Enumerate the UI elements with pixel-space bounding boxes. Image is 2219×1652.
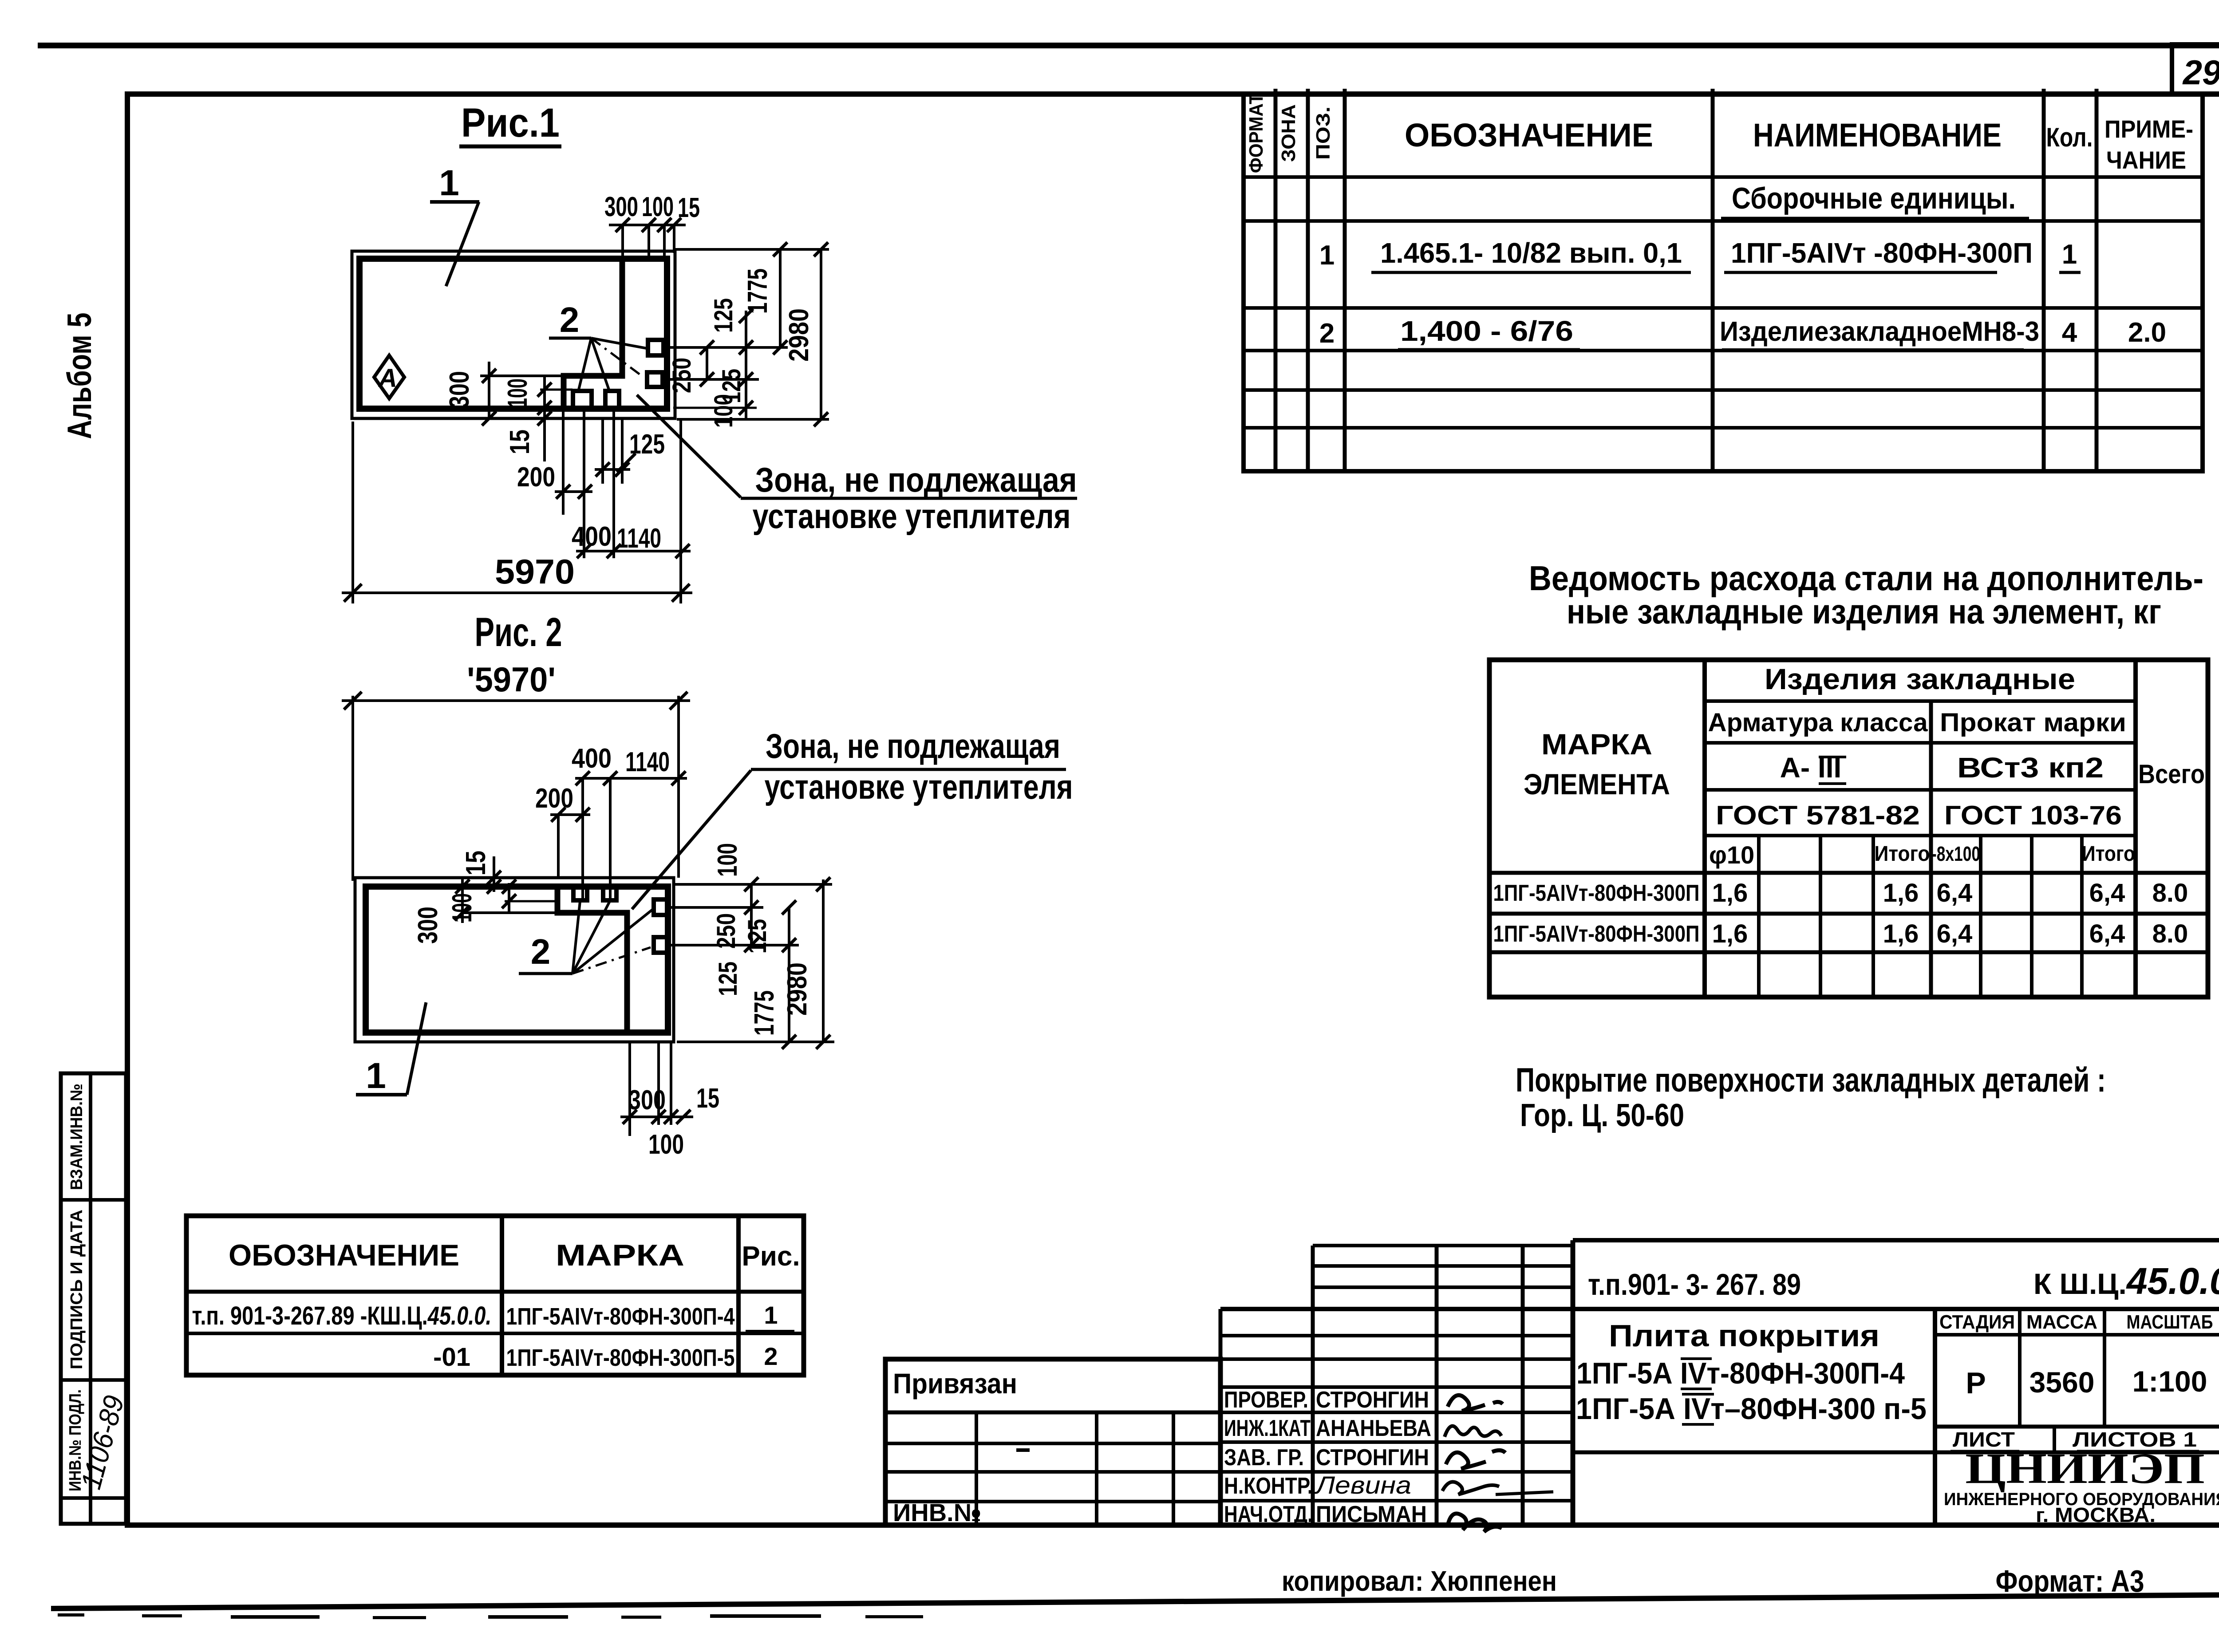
fig1 dimension 400 1140 <box>572 521 691 558</box>
svg-text:ПИСЬМАН: ПИСЬМАН <box>1316 1502 1427 1527</box>
svg-text:НАЧ.ОТД.: НАЧ.ОТД. <box>1224 1502 1313 1527</box>
spec header primechanie <box>2104 115 2193 174</box>
svg-text:100: 100 <box>648 1129 684 1160</box>
svg-text:300: 300 <box>413 907 443 944</box>
svg-text:1775: 1775 <box>742 268 773 314</box>
fig2 position label 2 with leaders <box>519 901 652 974</box>
privyazan dash <box>1016 1448 1030 1452</box>
svg-text:Н.КОНТР.: Н.КОНТР. <box>1224 1473 1313 1499</box>
fig2 embedded plate upper <box>654 899 669 915</box>
svg-text:1140: 1140 <box>625 747 670 777</box>
svg-text:ЧАНИЕ: ЧАНИЕ <box>2106 146 2186 174</box>
svg-text:6,4: 6,4 <box>2089 879 2125 907</box>
svg-text:Рис. 2: Рис. 2 <box>475 610 562 655</box>
svg-text:4: 4 <box>2062 317 2077 348</box>
svg-text:2980: 2980 <box>782 962 813 1016</box>
fig2 dimension 100 left <box>447 879 558 923</box>
svg-text:1ПГ-5АIVт-80ФН-300П: 1ПГ-5АIVт-80ФН-300П <box>1493 921 1700 947</box>
svg-text:300: 300 <box>628 1085 666 1116</box>
svg-text:1ПГ-5АIVт-80ФН-300П-4: 1ПГ-5АIVт-80ФН-300П-4 <box>506 1303 735 1330</box>
fig2 embedded loop mark right <box>603 887 616 900</box>
svg-text:Итого: Итого <box>1875 842 1930 866</box>
fig2 overall dimension 5970 <box>342 660 690 881</box>
album label <box>61 313 99 439</box>
svg-text:ЗОНА: ЗОНА <box>1278 104 1299 162</box>
svg-text:-01: -01 <box>433 1343 470 1372</box>
fig1 position label 1 with leader <box>430 163 479 286</box>
svg-text:Гор. Ц. 50-60: Гор. Ц. 50-60 <box>1520 1098 1684 1133</box>
fig1 caption <box>459 100 561 146</box>
svg-text:Плита покрытия: Плита покрытия <box>1609 1318 1879 1353</box>
fig1 overall dimension 5970 <box>342 420 692 603</box>
svg-text:200: 200 <box>517 462 555 493</box>
svg-text:МАРКА: МАРКА <box>556 1238 684 1272</box>
svg-text:15: 15 <box>696 1083 719 1114</box>
svg-text:300: 300 <box>604 192 638 222</box>
svg-text:1,6: 1,6 <box>1883 879 1919 907</box>
svg-text:СТРОНГИН: СТРОНГИН <box>1316 1387 1429 1413</box>
svg-text:1.465.1- 10/82 вып. 0,1: 1.465.1- 10/82 вып. 0,1 <box>1380 237 1682 269</box>
svg-text:8.0: 8.0 <box>2152 919 2188 948</box>
svg-text:125: 125 <box>629 429 665 460</box>
svg-text:ПОЗ.: ПОЗ. <box>1312 106 1334 160</box>
svg-text:1,6: 1,6 <box>1712 879 1748 907</box>
spec row position 2 <box>1319 315 2166 350</box>
svg-text:Привязан: Привязан <box>893 1368 1017 1400</box>
coating note <box>1516 1061 2106 1133</box>
svg-text:400: 400 <box>572 521 612 552</box>
fig2 slab outer edge <box>355 878 674 1042</box>
svg-text:15: 15 <box>461 851 491 875</box>
svg-text:1140: 1140 <box>617 523 661 554</box>
signature row inzh ananyeva <box>1224 1415 1501 1441</box>
fig2 dimension 15 top <box>461 851 501 894</box>
svg-text:ПРОВЕР.: ПРОВЕР. <box>1224 1387 1308 1413</box>
svg-text:29: 29 <box>2182 53 2219 92</box>
svg-text:1,6: 1,6 <box>1883 919 1919 948</box>
steel header marka elementa <box>1524 728 1670 800</box>
svg-text:1: 1 <box>2062 239 2077 270</box>
svg-text:-8x100: -8x100 <box>1931 842 1980 865</box>
svg-text:2: 2 <box>764 1342 778 1370</box>
svg-text:г. МОСКВА.: г. МОСКВА. <box>2036 1503 2156 1526</box>
steel table grid <box>1489 660 2208 997</box>
svg-text:ЗАВ. ГР.: ЗАВ. ГР. <box>1224 1445 1304 1471</box>
svg-text:1ПГ-5АIVт-80ФН-300П-5: 1ПГ-5АIVт-80ФН-300П-5 <box>506 1344 735 1371</box>
top scan edge line <box>38 43 2219 48</box>
svg-text:1,6: 1,6 <box>1712 919 1748 948</box>
svg-text:φ10: φ10 <box>1709 841 1754 869</box>
svg-text:200: 200 <box>535 783 573 814</box>
svg-text:АНАНЬЕВА: АНАНЬЕВА <box>1316 1415 1431 1441</box>
fig1 dimension 200 <box>517 462 592 499</box>
fig1 slab outer edge <box>352 251 675 418</box>
svg-text:8.0: 8.0 <box>2152 879 2188 907</box>
fig2 right dimension cluster <box>670 877 834 1049</box>
fig2 dimension 200 <box>535 783 590 822</box>
svg-text:300: 300 <box>444 371 475 408</box>
svg-text:6,4: 6,4 <box>1937 919 1973 948</box>
svg-text:МАССА: МАССА <box>2026 1311 2097 1333</box>
svg-text:Изделия закладные: Изделия закладные <box>1765 662 2075 695</box>
svg-text:ИНВ.№: ИНВ.№ <box>893 1498 981 1526</box>
fig1 embedded loop mark right <box>605 391 619 408</box>
svg-text:ИзделиезакладноеМН8-3: ИзделиезакладноеМН8-3 <box>1720 316 2039 347</box>
svg-text:Формат: А3: Формат: А3 <box>1996 1564 2144 1598</box>
svg-text:ГОСТ 103-76: ГОСТ 103-76 <box>1944 800 2122 830</box>
svg-text:1ПГ-5АIVт -80ФН-300П: 1ПГ-5АIVт -80ФН-300П <box>1731 237 2033 269</box>
svg-text:К Ш.Ц.45.0.0: К Ш.Ц.45.0.0 <box>2033 1260 2219 1302</box>
svg-text:100: 100 <box>502 379 533 408</box>
svg-text:2: 2 <box>1319 318 1335 349</box>
fig1 embedded plate lower <box>647 372 663 387</box>
svg-text:15: 15 <box>505 430 535 454</box>
fig1 extension lines below slab <box>563 409 622 558</box>
title block grid <box>1220 1240 2219 1525</box>
fig1 slab body <box>359 259 667 409</box>
fig2 dimension 400 1140 <box>572 743 687 785</box>
svg-text:1: 1 <box>439 163 459 203</box>
svg-text:Рис.1: Рис.1 <box>461 100 560 146</box>
svg-text:1:100: 1:100 <box>2132 1365 2207 1398</box>
svg-text:Итого: Итого <box>2082 842 2135 866</box>
svg-text:250: 250 <box>712 913 741 949</box>
reference row 1 <box>192 1301 795 1331</box>
svg-text:400: 400 <box>572 743 612 774</box>
steel table header izdeliya zakladnye <box>1765 662 2075 695</box>
fig1 insulation-free zone boundary <box>564 260 622 408</box>
svg-text:3560: 3560 <box>2029 1366 2095 1399</box>
fig1 zone note text with leader <box>637 395 1077 536</box>
fig2 zone note text with leader <box>632 726 1073 909</box>
svg-text:2: 2 <box>560 300 580 339</box>
svg-text:установке утеплителя: установке утеплителя <box>765 767 1073 806</box>
svg-text:Р: Р <box>1966 1366 1986 1400</box>
left margin strip table <box>61 1073 126 1524</box>
svg-text:МАРКА: МАРКА <box>1541 728 1652 761</box>
fig1 embedded loop mark left <box>573 391 592 408</box>
svg-text:Арматура класса: Арматура класса <box>1708 708 1928 737</box>
svg-text:СТАДИЯ: СТАДИЯ <box>1939 1311 2015 1333</box>
fig1 position label 2 with leaders <box>549 300 647 390</box>
reference table grid <box>186 1216 804 1375</box>
steel data row 2 <box>1493 919 2188 948</box>
svg-text:ные закладные изделия на: ные закладные изделия на элемент, кг <box>1567 592 2161 631</box>
page number box 29 <box>2172 44 2219 94</box>
title name plita pokrytiya <box>1576 1318 1927 1426</box>
svg-text:Всего: Всего <box>2138 759 2205 789</box>
svg-text:1: 1 <box>1319 240 1335 271</box>
svg-text:ЭЛЕМЕНТА: ЭЛЕМЕНТА <box>1524 768 1670 800</box>
fig2 position label 1 with leader <box>356 1002 426 1096</box>
svg-text:Левина: Левина <box>1315 1471 1411 1499</box>
svg-text:Рис.: Рис. <box>742 1241 800 1272</box>
signature row zav gr strongin <box>1224 1445 1505 1471</box>
svg-text:ЦНИИЭП: ЦНИИЭП <box>1965 1445 2205 1493</box>
fig2 extension lines above slab <box>558 778 610 900</box>
fig2 bottom dimension 300 15 100 <box>620 1042 719 1160</box>
svg-text:'5970': '5970' <box>467 660 556 699</box>
svg-text:2: 2 <box>531 932 551 971</box>
fig1 embedded plate upper <box>648 340 663 355</box>
svg-text:НАИМЕНОВАНИЕ: НАИМЕНОВАНИЕ <box>1753 117 2002 154</box>
svg-text:т.п. 901-3-267.89 -КШ.Ц.45.0.0: т.п. 901-3-267.89 -КШ.Ц.45.0.0. <box>192 1301 492 1330</box>
svg-text:250: 250 <box>667 358 696 393</box>
svg-text:1ПГ-5АIVт-80ФН-300П: 1ПГ-5АIVт-80ФН-300П <box>1493 880 1700 906</box>
svg-text:ПРИМЕ-: ПРИМЕ- <box>2104 115 2193 143</box>
svg-text:1: 1 <box>764 1301 778 1329</box>
svg-text:100: 100 <box>447 893 478 923</box>
copied by note <box>1282 1565 1557 1597</box>
spec row sborochnye edinicy <box>1721 181 2029 218</box>
svg-text:Покрытие поверхности закладн: Покрытие поверхности закладных деталей : <box>1516 1061 2106 1099</box>
fig1 bottom dimension 300 <box>444 362 563 426</box>
svg-text:6,4: 6,4 <box>1937 879 1973 907</box>
steel data row 1 <box>1493 879 2188 907</box>
title list row <box>1951 1428 2199 1451</box>
fig2 embedded loop mark left <box>573 887 587 900</box>
svg-text:ПОДПИСЬ И ДАТА: ПОДПИСЬ И ДАТА <box>67 1210 86 1369</box>
fig2 insulation-free zone boundary <box>557 887 627 1032</box>
svg-text:Зона, не подлежащая: Зона, не подлежащая <box>755 460 1077 499</box>
fig2 dimension 300 left <box>413 878 557 944</box>
svg-text:6,4: 6,4 <box>2089 919 2125 948</box>
svg-text:2.0: 2.0 <box>2128 317 2166 348</box>
svg-text:А: А <box>378 364 397 393</box>
svg-text:ОБОЗНАЧЕНИЕ: ОБОЗНАЧЕНИЕ <box>229 1238 459 1272</box>
steel header class A-III <box>1780 752 1846 784</box>
svg-text:1775: 1775 <box>749 990 780 1036</box>
specification table grid <box>1244 89 2203 471</box>
svg-text:1,400 - 6/76: 1,400 - 6/76 <box>1400 315 1573 347</box>
fig2 embedded plate lower <box>654 937 669 953</box>
svg-text:Зона, не подлежащая: Зона, не подлежащая <box>766 726 1060 765</box>
svg-text:100: 100 <box>712 843 743 877</box>
svg-text:ВЗАМ.ИНВ.№: ВЗАМ.ИНВ.№ <box>67 1084 86 1190</box>
svg-text:СТРОНГИН: СТРОНГИН <box>1316 1445 1429 1471</box>
svg-text:125: 125 <box>743 919 772 954</box>
fig2 slab body <box>366 887 668 1033</box>
svg-text:2980: 2980 <box>784 308 814 362</box>
svg-text:1ПГ-5А IVт-80ФН-300П-4: 1ПГ-5А IVт-80ФН-300П-4 <box>1576 1356 1905 1390</box>
bottom scan edge line <box>51 1592 2219 1619</box>
svg-text:установке утеплителя: установке утеплителя <box>753 497 1071 536</box>
fig1 dimension 125 below slab <box>595 429 665 477</box>
svg-text:Кол.: Кол. <box>2046 122 2093 152</box>
title org TsNIIEP <box>1944 1445 2219 1526</box>
svg-text:125: 125 <box>714 962 742 996</box>
spec row position 1 <box>1319 237 2081 272</box>
fig1 top dimension 300 100 15 <box>604 192 700 259</box>
svg-text:т.п.901- 3- 267. 89: т.п.901- 3- 267. 89 <box>1588 1268 1801 1301</box>
svg-text:ФОРМАТ: ФОРМАТ <box>1245 93 1267 173</box>
svg-text:Сборочные единицы.: Сборочные единицы. <box>1732 181 2016 215</box>
signature block grid <box>1220 1246 1573 1525</box>
svg-text:100: 100 <box>709 394 738 428</box>
svg-text:ВСт3 кп2: ВСт3 кп2 <box>1957 752 2104 784</box>
steel table title <box>1529 559 2203 631</box>
svg-text:5970: 5970 <box>495 552 575 591</box>
svg-text:копировал: Хюппенен: копировал: Хюппенен <box>1282 1565 1557 1597</box>
svg-text:Прокат марки: Прокат марки <box>1940 708 2126 737</box>
inv no label <box>893 1498 981 1526</box>
svg-text:ОБОЗНАЧЕНИЕ: ОБОЗНАЧЕНИЕ <box>1405 117 1653 154</box>
reference row 2 <box>433 1342 778 1372</box>
fig1 bottom dimension 100 and 15 <box>502 377 573 461</box>
svg-text:ИНЖ.1КАТ: ИНЖ.1КАТ <box>1224 1415 1311 1441</box>
svg-text:1ПГ-5А IVт–80ФН-300 п-5: 1ПГ-5А IVт–80ФН-300 п-5 <box>1576 1392 1927 1426</box>
svg-text:ГОСТ 5781-82: ГОСТ 5781-82 <box>1716 800 1920 830</box>
privyazan block grid <box>885 1359 1220 1525</box>
signature row prover strongin <box>1224 1387 1503 1413</box>
svg-text:МАСШТАБ: МАСШТАБ <box>2127 1311 2213 1333</box>
signature row nach otd pisman <box>1224 1502 1502 1532</box>
svg-text:Альбом 5: Альбом 5 <box>61 313 99 439</box>
fig1 diamond mark A <box>374 355 404 398</box>
signature row n kontr levina <box>1224 1471 1553 1499</box>
svg-text:100: 100 <box>642 192 674 222</box>
svg-text:1: 1 <box>366 1056 386 1096</box>
svg-text:125: 125 <box>709 298 738 333</box>
fig1 right dimension cluster <box>668 242 829 426</box>
